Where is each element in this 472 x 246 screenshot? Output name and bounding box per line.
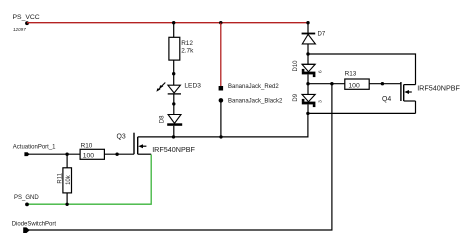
resistor R12 — [169, 37, 180, 60]
wire BananaJack_Black2 down — [220, 100, 222, 136]
svg-text:R11: R11 — [58, 172, 64, 183]
pad BananaJack_Red2 — [219, 86, 224, 91]
svg-text:100: 100 — [83, 152, 95, 159]
wire PS_GND (green) — [27, 155, 151, 205]
junction at BananaJack_Red2 branch — [219, 21, 222, 24]
svg-text:Q3: Q3 — [117, 134, 126, 141]
wire R12 to LED3 — [173, 60, 175, 85]
junction at R12 top — [172, 21, 175, 24]
wire gate net Q3 — [26, 153, 134, 155]
wire PS_VCC to D7 — [307, 23, 309, 34]
wire Q4 drain net — [308, 54, 416, 85]
wire PS_VCC to R12 — [173, 23, 175, 38]
svg-text:BananaJack_Black2: BananaJack_Black2 — [228, 98, 283, 104]
junction BananaJack_Black2 bottom — [219, 135, 222, 138]
junction gate-net branch — [306, 82, 309, 85]
svg-text:10k: 10k — [66, 174, 72, 185]
svg-text:12097: 12097 — [13, 27, 26, 32]
wire D8 to drain net — [173, 126, 175, 137]
junction R11 bottom — [65, 203, 68, 206]
transistor Q3 — [134, 133, 151, 155]
svg-text:BananaJack_Red2: BananaJack_Red2 — [228, 84, 279, 90]
wire PS_VCC (red) — [27, 22, 308, 24]
transistor Q4 — [401, 82, 416, 101]
diode D8 — [167, 115, 182, 126]
wire R11 top — [66, 154, 68, 168]
svg-text:3: 3 — [318, 100, 324, 103]
wire R13 to Q4 gate — [369, 83, 401, 85]
port DiodeSwitchPort — [23, 227, 30, 233]
wire LED3 to D8 — [173, 94, 175, 115]
port ActuationPort_1 — [24, 152, 29, 156]
junction R11 top — [65, 153, 68, 156]
junction below R12 — [172, 72, 175, 75]
svg-text:2.7k: 2.7k — [181, 47, 194, 54]
wire Q4 source net — [308, 112, 416, 114]
dot after R13 — [381, 82, 384, 85]
diode D9 — [302, 94, 316, 107]
svg-text:R10: R10 — [81, 142, 93, 149]
junction D9 bottom — [306, 112, 309, 115]
resistor R13 — [345, 79, 369, 89]
svg-text:ActuationPort_1: ActuationPort_1 — [13, 144, 56, 150]
dot after R10 — [115, 153, 118, 156]
diode D10 — [302, 64, 316, 77]
wire R11 bottom — [66, 193, 68, 204]
wire gate net Q4 — [308, 83, 345, 85]
svg-text:PS_VCC: PS_VCC — [13, 14, 40, 21]
wire D10 to D9 — [307, 74, 309, 94]
port PS_GND — [25, 203, 29, 207]
junction D8 bottom — [172, 135, 175, 138]
svg-text:D10: D10 — [293, 60, 299, 72]
resistor R10 — [80, 149, 104, 159]
svg-text:DiodeSwitchPort: DiodeSwitchPort — [12, 222, 57, 228]
svg-text:D8: D8 — [159, 115, 165, 123]
wire up to D9 bottom — [307, 113, 309, 137]
resistor R11 — [63, 168, 72, 193]
junction at D7 branch — [306, 21, 309, 24]
wire D7 to D10 — [307, 44, 309, 64]
diode D7 — [302, 33, 316, 44]
svg-text:PS_GND: PS_GND — [14, 195, 39, 201]
wire DiodeSwitchPort net — [25, 84, 332, 230]
wire Q3 drain net — [138, 136, 308, 138]
junction drain-net branch — [306, 52, 309, 55]
junction DiodeSwitchPort branch — [330, 82, 333, 85]
svg-text:6: 6 — [318, 70, 324, 73]
svg-text:IRF540NPBF: IRF540NPBF — [152, 145, 195, 154]
junction between LED3 and D8 — [172, 102, 175, 105]
svg-text:Q4: Q4 — [382, 96, 391, 103]
svg-text:R12: R12 — [181, 40, 193, 47]
svg-text:D7: D7 — [318, 32, 326, 38]
svg-text:R13: R13 — [345, 71, 357, 78]
pad BananaJack_Black2 — [219, 98, 224, 103]
port PS_VCC — [25, 21, 29, 25]
wire Q4 source down — [415, 101, 417, 113]
svg-text:D9: D9 — [293, 93, 299, 101]
svg-text:IRF540NPBF: IRF540NPBF — [417, 83, 460, 92]
svg-text:LED3: LED3 — [184, 82, 201, 89]
LED LED3 — [156, 83, 181, 94]
wire red to BananaJack_Red2 — [220, 23, 222, 86]
svg-text:100: 100 — [348, 82, 360, 89]
wire D9 to source net — [307, 104, 309, 113]
